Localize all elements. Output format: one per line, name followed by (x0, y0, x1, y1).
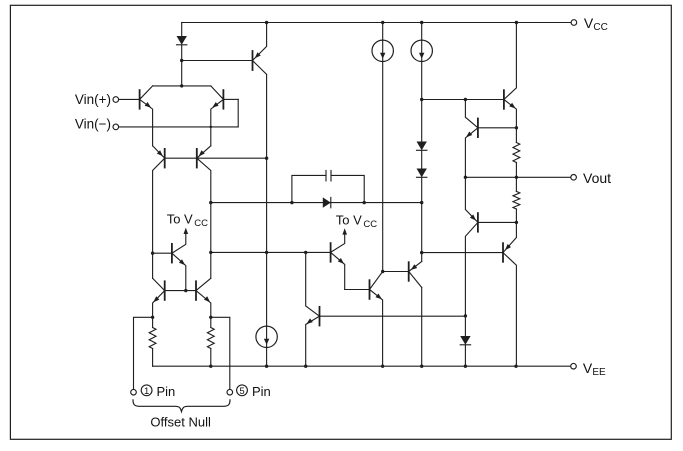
junction R2 top (209, 316, 212, 319)
current source I3 (256, 326, 277, 347)
junction Q7 emitter to Q5/Q6 bases (184, 289, 187, 292)
diode D2 (323, 197, 331, 207)
transistor Q2 (NPN input -) (222, 90, 224, 109)
svg-text:CC: CC (593, 22, 607, 33)
junction Q14 collector at VCC rail (515, 21, 518, 24)
transistor Q22 (PNP) (408, 262, 410, 281)
node A junction (180, 59, 183, 62)
svg-text:Vin(−): Vin(−) (75, 117, 111, 132)
wire node C to Q19 base (422, 252, 503, 254)
wire compensation node line (211, 202, 422, 204)
svg-text:Pin: Pin (252, 384, 271, 399)
wire Q18 base (479, 127, 517, 129)
diode D3 (417, 142, 427, 151)
resistor R1 (152, 317, 154, 327)
wire Vin(-) to Q2 base loop (119, 126, 238, 128)
node pin 1 terminal (131, 389, 137, 395)
svg-text:CC: CC (363, 219, 377, 230)
junction Q18 emitter at Vout (464, 176, 467, 179)
wire Vout line (465, 176, 571, 178)
junction cap right (363, 201, 366, 204)
resistor R4 (515, 177, 517, 191)
node Vin(+) terminal (113, 97, 119, 103)
node VCC terminal (571, 20, 577, 26)
wire pin1 lead (134, 317, 153, 389)
junction D5 at VEE rail (464, 365, 467, 368)
junction Q8 emitter at VCC rail (265, 21, 268, 24)
junction Q20 collector / Q10 base / D5 (464, 314, 467, 317)
wire to Q16 base (211, 251, 330, 253)
junction node B (265, 251, 268, 254)
transistor Q6 (NPN) (195, 281, 197, 300)
resistor R3 (513, 143, 520, 163)
junction input pair top (180, 84, 183, 87)
wire node A down to input pair top (181, 61, 183, 86)
current source I2 (421, 23, 423, 100)
junction Q6 collector line (209, 251, 212, 254)
svg-text:V: V (584, 15, 594, 31)
junction Q18 base on Q14 emitter (515, 126, 518, 129)
wire D1 to node A (181, 45, 183, 61)
transistor Q20 (PNP output) (477, 213, 479, 232)
junction Q7 base on Q3 collector line (151, 252, 154, 255)
diode D1 (177, 36, 187, 45)
wire cap branch right (331, 175, 364, 202)
wire Q3-Q4 base bus (166, 157, 267, 159)
node pin 5 terminal (227, 389, 233, 395)
junction Q18 collector tap (464, 98, 467, 101)
wire Q22 collector to VEE rail (421, 287, 423, 366)
diode D4 (417, 169, 427, 178)
transistor Q18 (NPN) (477, 119, 479, 138)
junction I2 at VCC rail (420, 21, 423, 24)
svg-text:Vin(+): Vin(+) (75, 92, 111, 107)
svg-text:Offset Null: Offset Null (150, 414, 211, 429)
junction I3 at VEE rail (265, 365, 268, 368)
junction at VEE rail (420, 365, 423, 368)
junction R3 at Vout (515, 176, 518, 179)
junction R4 bottom / Q20 base (515, 221, 518, 224)
svg-text:CC: CC (194, 218, 208, 229)
junction at diode chain (420, 201, 423, 204)
svg-text:Pin: Pin (157, 384, 176, 399)
wire Q8 base (182, 60, 252, 62)
current source I1 (382, 23, 384, 272)
wire Q20 base (479, 221, 517, 223)
transistor Q5 (NPN) (164, 281, 166, 300)
svg-text:EE: EE (592, 367, 606, 378)
wire Q7 base (153, 252, 171, 254)
junction Q19 collector at VEE rail (514, 365, 517, 368)
wire Q5-Q6 base bus (166, 290, 195, 292)
wire VCC top rail (182, 22, 572, 24)
wire Q14 base line (422, 99, 504, 101)
junction Q4 collector line (209, 201, 212, 204)
svg-text:V: V (583, 360, 593, 376)
junction cap left (290, 201, 293, 204)
wire input pair top bus (153, 85, 211, 87)
node VEE terminal (571, 363, 577, 369)
svg-text:Vout: Vout (583, 170, 611, 186)
junction Q3/Q4 bases to Q8 collector (265, 157, 268, 160)
brace offset null (133, 400, 230, 412)
wire VCC to D1 (181, 23, 183, 37)
transistor Q1 (NPN input +) (139, 90, 141, 109)
junction I1 output node (381, 270, 384, 273)
transistor Q7 (NPN) (171, 244, 173, 263)
svg-text:5: 5 (239, 386, 244, 397)
wire Q8 collector to I3 (266, 158, 268, 252)
capacitor C1 (325, 171, 327, 181)
svg-text:To V: To V (167, 211, 193, 226)
wire diode chain to node C (421, 203, 423, 253)
transistor Q4 (PNP) (196, 149, 198, 168)
transistor Q16 (NPN) (330, 243, 332, 262)
wire Q10 base line (321, 315, 466, 317)
junction node C (420, 251, 423, 254)
wire Q22 base (383, 271, 408, 273)
transistor Q8 (PNP) (252, 51, 254, 70)
junction Q14 base tap (420, 98, 423, 101)
svg-text:1: 1 (144, 386, 149, 397)
junction on Vin(-) line (210, 126, 213, 129)
transistor Q17 (NPN) (369, 280, 371, 299)
transistor Q3 (PNP) (164, 149, 166, 168)
wire cap branch left (292, 175, 326, 202)
diode D5 (464, 316, 466, 336)
wire pin5 lead (211, 317, 230, 389)
wire VEE bottom rail (153, 365, 571, 367)
junction R2 bottom at VEE rail (209, 365, 212, 368)
transistor Q19 (PNP) (502, 243, 504, 262)
svg-text:To V: To V (336, 213, 362, 228)
junction Q10 emitter at VEE rail (304, 365, 307, 368)
wire Q16 emitter to Q17 base (345, 289, 369, 291)
node Vout terminal (571, 175, 577, 181)
node Vin(-) terminal (113, 124, 119, 130)
wire Vin(+) to Q1 base (119, 98, 139, 100)
transistor Q14 (NPN output) (503, 90, 505, 109)
junction Q17 emitter at VEE rail (381, 365, 384, 368)
junction Q10 collector tap (304, 251, 307, 254)
transistor Q10 (NPN) (319, 307, 321, 326)
junction R1 top (151, 316, 154, 319)
junction I1 at VCC rail (381, 21, 384, 24)
resistor R2 (210, 317, 212, 327)
